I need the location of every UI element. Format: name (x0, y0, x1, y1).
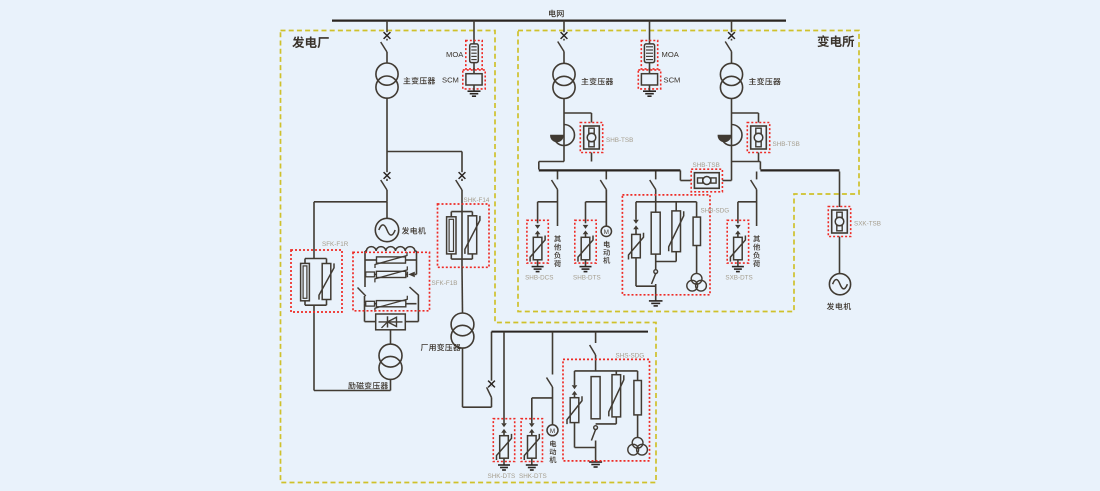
svg-text:M: M (550, 428, 555, 435)
svg-text:SXB-DTS: SXB-DTS (725, 275, 752, 282)
svg-text:SHK-F14: SHK-F14 (464, 197, 490, 204)
svg-text:SHB-TSB: SHB-TSB (693, 162, 720, 169)
svg-text:SCM: SCM (442, 76, 459, 85)
svg-text:M: M (604, 229, 609, 236)
svg-text:SFK-F1B: SFK-F1B (432, 280, 458, 287)
svg-text:MOA: MOA (446, 50, 464, 59)
svg-text:SHB-DTS: SHB-DTS (573, 275, 601, 282)
svg-text:SHB-SDG: SHB-SDG (701, 208, 730, 215)
svg-text:SHK-DTS: SHK-DTS (488, 473, 516, 480)
svg-text:SHK-DTS: SHK-DTS (519, 473, 547, 480)
svg-text:MOA: MOA (662, 50, 680, 59)
svg-text:SCM: SCM (664, 76, 681, 85)
svg-text:SHB-TSB: SHB-TSB (773, 141, 800, 148)
svg-text:SHS-SDG: SHS-SDG (616, 353, 645, 360)
svg-text:SHB-TSB: SHB-TSB (606, 137, 633, 144)
svg-text:SXK-TSB: SXK-TSB (854, 221, 881, 228)
svg-text:SFK-F1R: SFK-F1R (322, 241, 349, 248)
svg-text:SHB-DCS: SHB-DCS (525, 275, 553, 282)
